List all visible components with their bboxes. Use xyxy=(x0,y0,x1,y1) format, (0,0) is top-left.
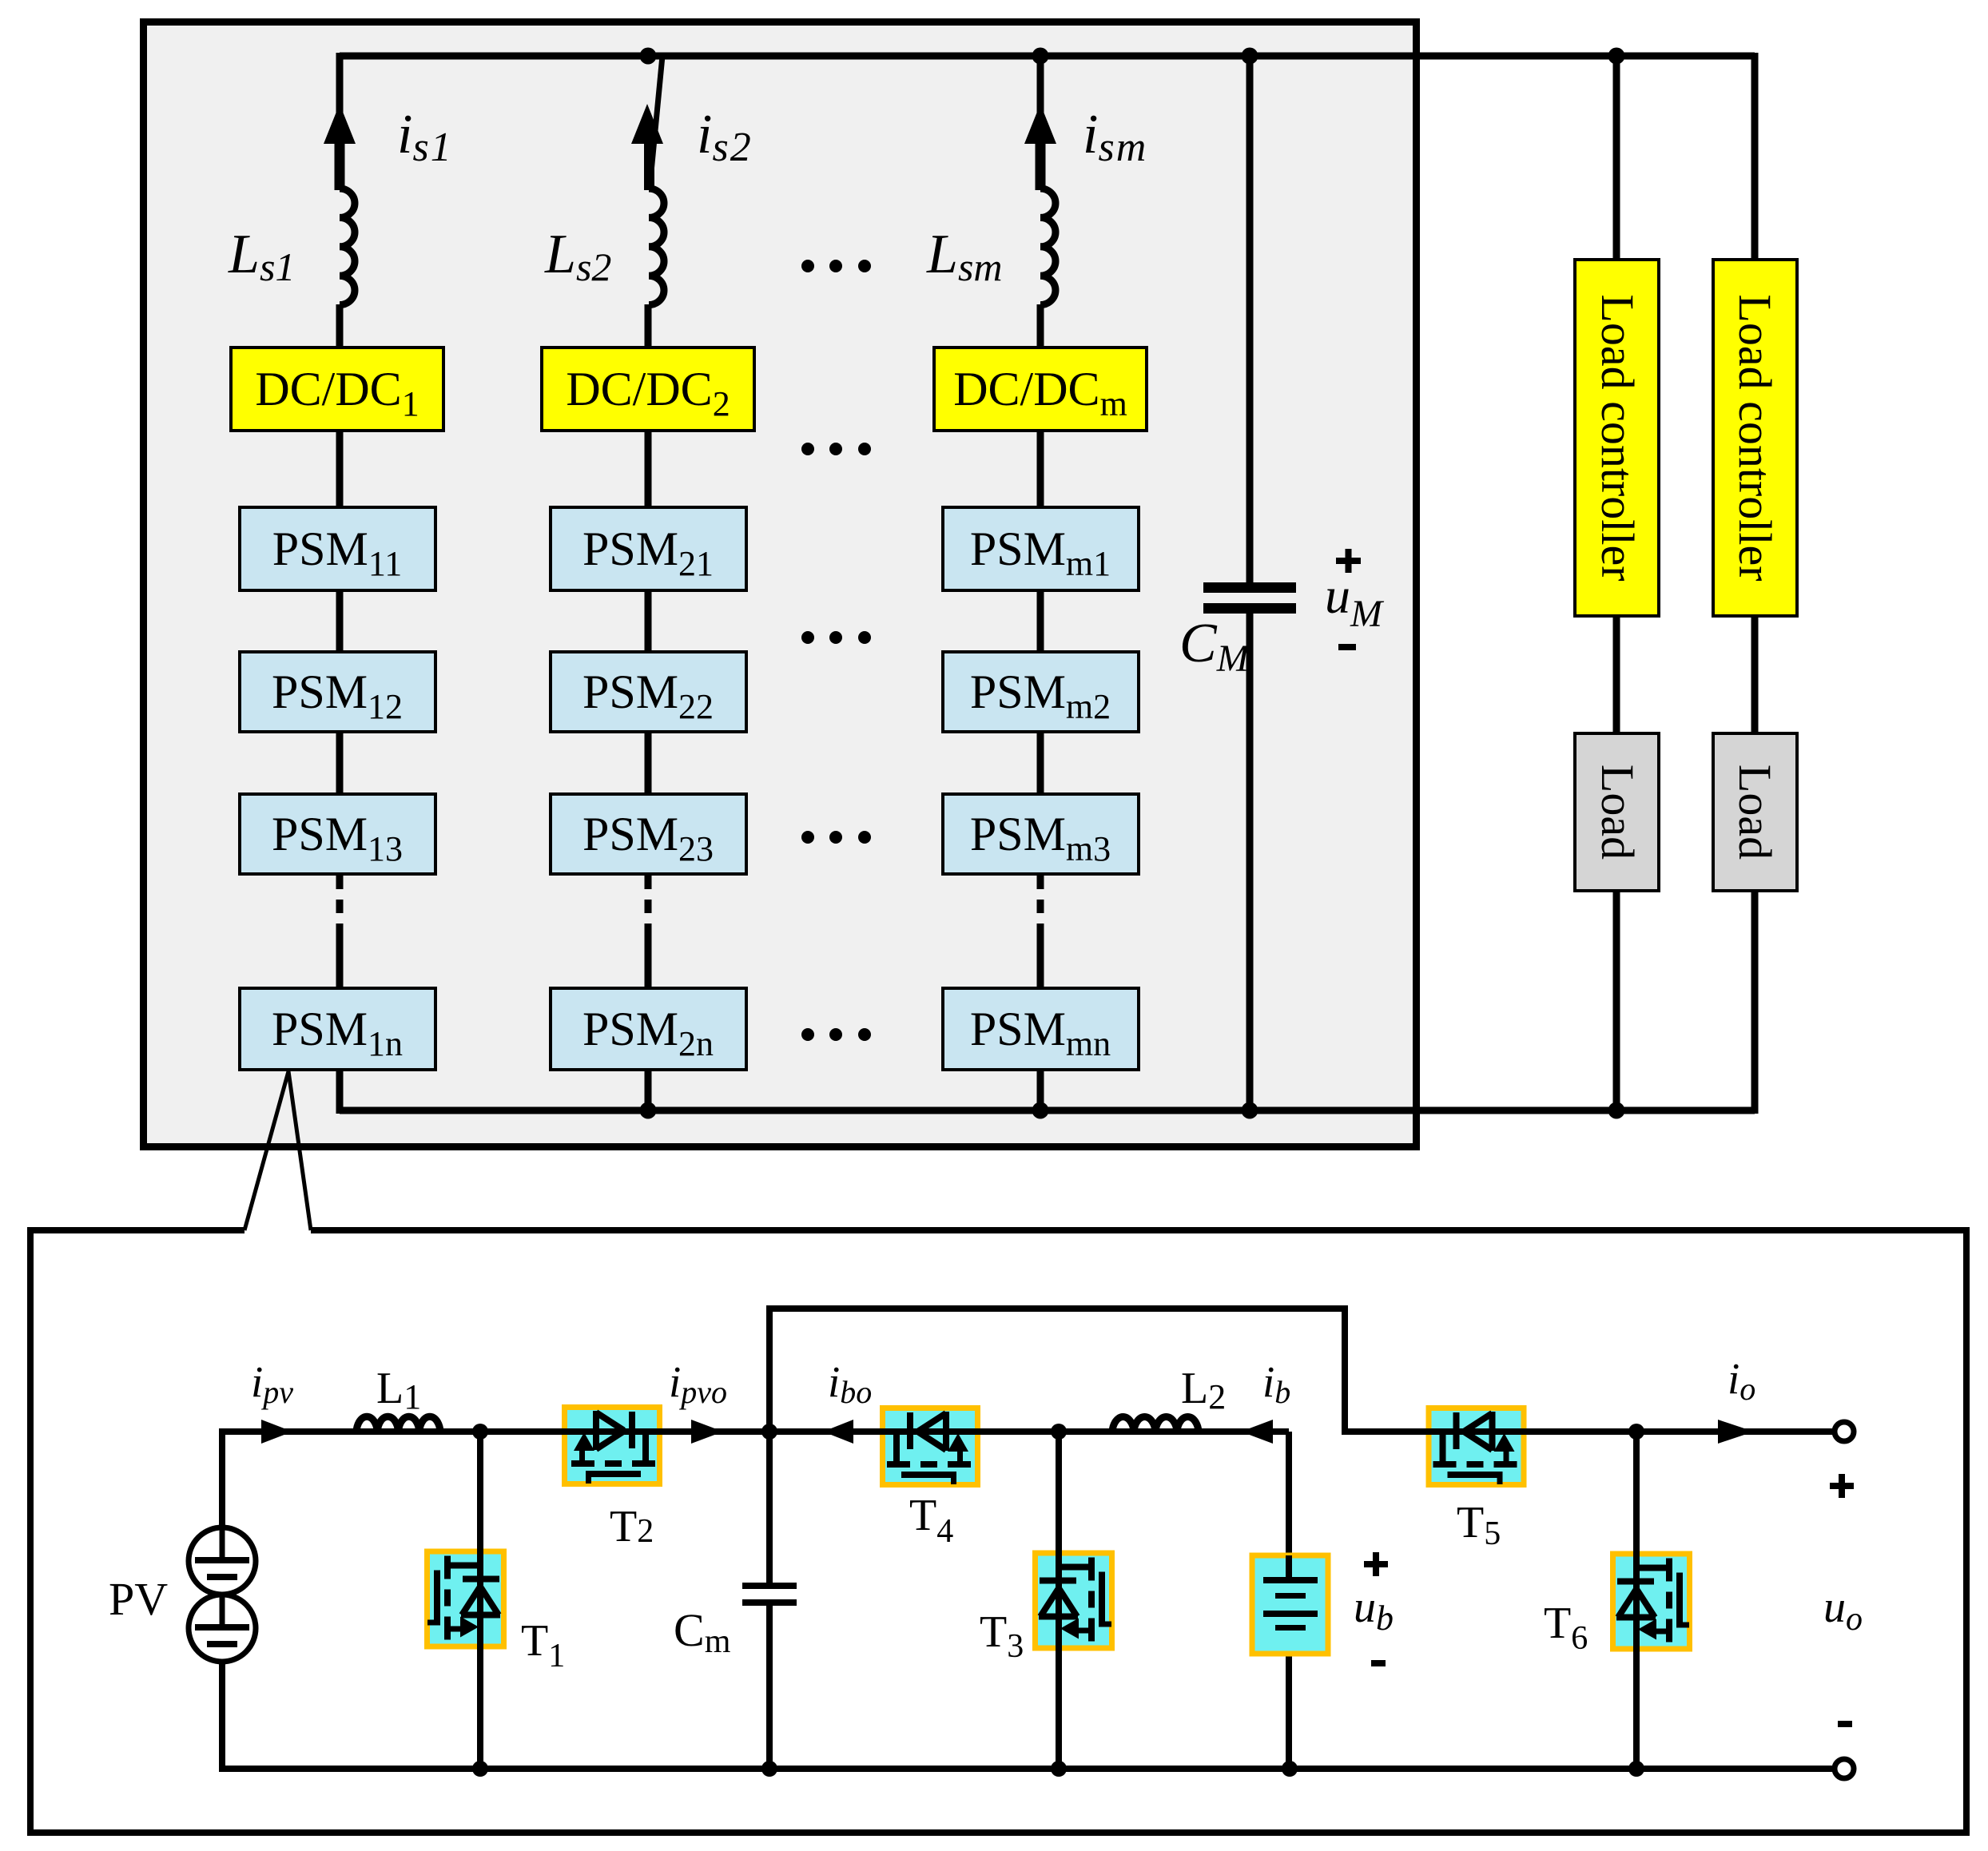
svg-text:DC/DC1: DC/DC1 xyxy=(255,363,419,423)
output terminal bottom xyxy=(1835,1759,1854,1778)
PSM13 box xyxy=(240,794,435,874)
PSMm3 box xyxy=(943,794,1139,874)
callout line right xyxy=(288,1071,311,1230)
minus sign of u_M xyxy=(1338,644,1356,650)
wire column 1 upper xyxy=(336,53,344,507)
DC/DCm converter box xyxy=(934,348,1147,431)
PV source circles xyxy=(189,1527,256,1662)
load controller 2 box xyxy=(1713,260,1797,616)
transistor T2 xyxy=(562,1404,662,1487)
arrow i_o xyxy=(1718,1420,1754,1444)
junction on top bus at CM xyxy=(1242,48,1258,65)
T2 wire overlay xyxy=(559,1428,667,1435)
PSM21 box xyxy=(551,507,746,590)
inductor L1 xyxy=(356,1416,440,1432)
load controller branch 1 wires xyxy=(1613,53,1620,1114)
ellipsis dots row Ls xyxy=(801,260,871,272)
wire column 2 slanted top segment xyxy=(650,56,662,189)
junction on top bus at column 2 xyxy=(640,48,657,65)
T6 branch wire overlay xyxy=(1633,1546,1640,1658)
junction bottom rail at battery xyxy=(1282,1761,1298,1777)
T4 wire overlay xyxy=(877,1428,983,1435)
DC/DC2 converter box xyxy=(542,348,754,431)
transistor T1 xyxy=(424,1549,507,1650)
PSM23 box xyxy=(551,794,746,874)
node junction at ipvo/Cm/bypass xyxy=(761,1424,777,1440)
junction bottom rail at Cm xyxy=(761,1761,777,1777)
wire column m dashed segment xyxy=(1037,876,1044,928)
transistor T4 xyxy=(880,1405,980,1488)
inductor L_s2 xyxy=(649,189,664,305)
arrow i_s1 xyxy=(324,104,356,144)
PSMm2 box xyxy=(943,652,1139,732)
PSM22 box xyxy=(551,652,746,732)
junction on top bus at load branch 1 xyxy=(1608,48,1625,65)
arrow i_pv xyxy=(261,1420,292,1444)
svg-text:Load controller: Load controller xyxy=(1592,294,1644,581)
arrow i_pvo xyxy=(691,1420,723,1444)
inductor L_sm xyxy=(1040,189,1056,305)
T1 branch wire xyxy=(477,1432,483,1769)
junction on top bus at column m xyxy=(1032,48,1049,65)
output terminal top xyxy=(1835,1422,1854,1441)
svg-text:PV: PV xyxy=(109,1573,168,1625)
PV branch wires xyxy=(222,1432,1835,1769)
junction bottom rail at T6 xyxy=(1628,1761,1644,1777)
junction bottom rail at T1 xyxy=(472,1761,488,1777)
arrow i_sm xyxy=(1024,104,1056,144)
junction on bottom bus at load branch 1 xyxy=(1608,1102,1625,1119)
top DC bus wire xyxy=(340,53,1755,60)
plus sign of u_M xyxy=(1336,549,1361,573)
arrow i_s2 xyxy=(631,104,663,144)
svg-text:Load: Load xyxy=(1592,765,1644,860)
svg-text:DC/DC2: DC/DC2 xyxy=(566,363,730,423)
load 1 box xyxy=(1575,733,1659,891)
gray enclosure box (converter matrix) xyxy=(144,22,1417,1147)
junction main wire at T6 xyxy=(1628,1424,1644,1440)
PV source internal plates xyxy=(195,1527,249,1647)
plus sign of u_o xyxy=(1830,1474,1854,1498)
battery top stub xyxy=(1286,1555,1292,1579)
battery branch wire xyxy=(1286,1432,1292,1769)
ellipsis dots row below DC/DC xyxy=(801,443,871,455)
capacitor CM plates xyxy=(1203,582,1296,593)
PSM2n box xyxy=(551,988,746,1070)
plus sign of u_b xyxy=(1364,1552,1388,1576)
PSM11 box xyxy=(240,507,435,590)
transistor T6 xyxy=(1610,1551,1692,1652)
big PSM detail box xyxy=(30,1230,1966,1833)
ellipsis dots row PSM2 xyxy=(801,631,871,644)
junction on bottom bus at CM xyxy=(1242,1102,1258,1119)
wire column 2 segments xyxy=(645,304,652,1110)
PSM12 box xyxy=(240,652,435,732)
wire column m segments xyxy=(1037,53,1044,1110)
transistor T3 xyxy=(1032,1551,1115,1651)
load controller 1 box xyxy=(1575,260,1659,616)
T6 branch wire xyxy=(1633,1432,1640,1769)
junction bottom rail at T3 xyxy=(1051,1761,1067,1777)
T3 branch wire overlay xyxy=(1056,1546,1062,1658)
capacitor Cm branch wires xyxy=(766,1432,773,1769)
minus sign of u_o xyxy=(1838,1721,1852,1727)
inductor L2 xyxy=(1112,1417,1199,1432)
bottom DC bus wire xyxy=(340,1107,1755,1114)
junction main wire at T3/L2 xyxy=(1051,1424,1067,1440)
callout line left xyxy=(245,1071,288,1230)
PSMmn box xyxy=(943,988,1139,1070)
ellipsis dots row PSMn xyxy=(801,1028,871,1041)
load controller branch 2 wires xyxy=(1751,53,1759,1114)
junction on bottom bus at column m xyxy=(1032,1102,1049,1119)
svg-text:Load controller: Load controller xyxy=(1729,294,1781,581)
inductor L_s1 xyxy=(340,189,355,305)
DC/DC1 converter box xyxy=(231,348,443,431)
T5 wire overlay xyxy=(1424,1428,1529,1435)
battery ub box xyxy=(1252,1555,1328,1654)
transistor T5 xyxy=(1426,1405,1527,1488)
capacitor CM branch wires xyxy=(1246,53,1254,1110)
bypass wire up and over xyxy=(769,1309,1835,1432)
ellipsis dots row PSM3 xyxy=(801,831,871,844)
battery plates xyxy=(1263,1577,1318,1631)
PSM1n box xyxy=(240,988,435,1070)
PSMm1 box xyxy=(943,507,1139,590)
arrow i_bo xyxy=(823,1420,853,1444)
load 2 box xyxy=(1713,733,1797,891)
T1 branch wire overlay xyxy=(477,1542,483,1658)
wire column 1 inter-module segments xyxy=(336,589,344,1114)
capacitor Cm plates xyxy=(742,1583,797,1589)
arrow i_b xyxy=(1241,1420,1273,1444)
junction main wire at T1 xyxy=(472,1424,488,1440)
T3 branch wire xyxy=(1056,1432,1062,1769)
wire column 1 dashed segment xyxy=(336,876,344,928)
svg-text:Load: Load xyxy=(1729,765,1781,860)
junction on bottom bus at column 2 xyxy=(640,1102,657,1119)
minus sign of u_b xyxy=(1371,1660,1386,1666)
wire column 2 dashed segment xyxy=(645,876,652,928)
